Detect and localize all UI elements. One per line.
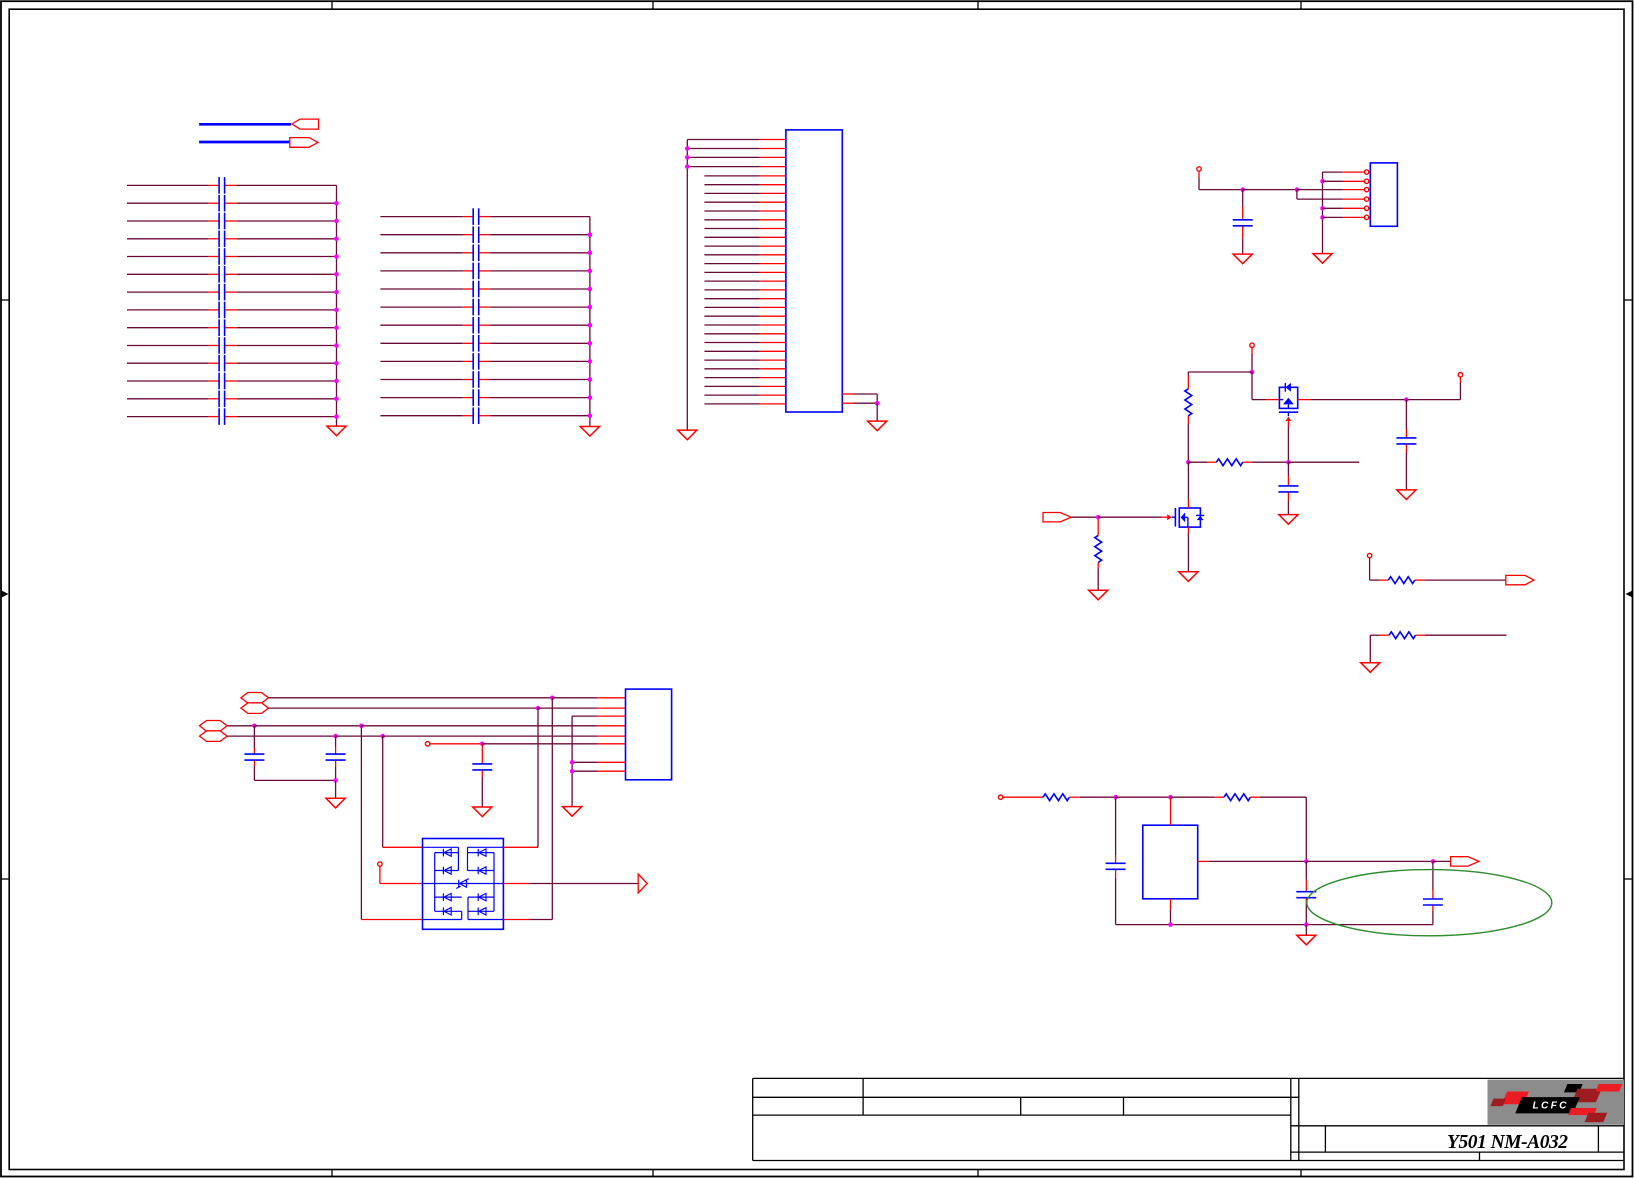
wire J1 pin 11 (704, 228, 786, 230)
ground (327, 426, 346, 436)
ground (326, 798, 345, 808)
wire J1 pin 19 (704, 298, 786, 300)
wire R5 right open end (1416, 634, 1507, 636)
ground (1233, 254, 1252, 264)
node open-circle terminal (1197, 167, 1201, 171)
wire D1 top-right to net B (503, 708, 538, 847)
ground (563, 807, 582, 817)
node open-circle input (998, 795, 1002, 799)
connector J1 (786, 130, 842, 412)
capacitor C26 with row wire (380, 407, 590, 424)
ground (1297, 935, 1316, 945)
diode D1.1 (443, 849, 451, 857)
highlight ellipse (1307, 870, 1552, 936)
capacitor C29 (1396, 400, 1416, 490)
wire J1 pin 21 (704, 315, 786, 317)
wire D1 bottom-right to net A (503, 698, 552, 920)
wire J1 pin 22 (704, 324, 786, 326)
ground (580, 427, 599, 437)
capacitor C27 (1233, 190, 1253, 254)
wire gate net horizontal (1188, 461, 1216, 463)
capacitor C13 with row wire (127, 391, 337, 408)
capacitor C14 with row wire (127, 408, 337, 425)
capacitor C20 with row wire (380, 299, 590, 316)
wire J1 pin 27 (704, 368, 786, 370)
wire R7 right and corner down (1250, 797, 1306, 861)
port tag P5 (bidirectional hexagon) (241, 693, 269, 704)
wire bus BUS1 (199, 123, 291, 126)
wire J1 pin 13 (704, 245, 786, 247)
svg-text:LCFC: LCFC (1533, 1101, 1568, 1112)
ground (1279, 515, 1298, 525)
resistor R2 (1216, 459, 1242, 466)
wire J1 pin 4 (687, 166, 786, 168)
capacitor C25 with row wire (380, 389, 590, 406)
wire J2 pin 8 (572, 770, 625, 772)
node J3 pin 3 circle (1364, 187, 1368, 191)
diode D1.7 (478, 893, 486, 901)
wire J1 pin 10 (704, 219, 786, 221)
wire J3 ground pin at y=181.3 (1323, 180, 1365, 182)
wire net C to D1 bottom-left (361, 726, 422, 920)
node J3 pin 4 circle (1364, 197, 1368, 201)
wire J1 pin 9 (704, 210, 786, 212)
capacitor C12 with row wire (127, 373, 337, 390)
port tag P7 (bidirectional hexagon) (200, 721, 228, 732)
wire Q2 source to ground (1187, 527, 1189, 571)
wire net C with junctions (227, 724, 625, 729)
diode D1.4 (478, 867, 486, 875)
wire gate drive to Q2 with junction (1071, 514, 1172, 520)
wire J1 pin 17 (704, 280, 786, 282)
node J3 pin 5 circle (1364, 206, 1368, 210)
diode D1.8 (478, 908, 486, 916)
connector J3 (1370, 163, 1397, 226)
capacitor C2 with row wire (127, 195, 337, 212)
node open-circle D1 mid input (378, 862, 382, 866)
connector J2 (626, 689, 672, 780)
wire U1 output net with junctions (1198, 859, 1451, 864)
wire J1 pin 5 (704, 175, 786, 177)
diode D1.5 (443, 893, 451, 901)
capacitor C33 (1106, 797, 1126, 924)
port tag P8 (bidirectional hexagon) (200, 731, 228, 742)
wire bus BUS2 (199, 141, 290, 144)
capacitor C10 with row wire (127, 337, 337, 354)
wire J1 pin 29 (704, 385, 786, 387)
wire Q1 gate pull-down with red arrow (1286, 417, 1292, 462)
node open-circle output (1458, 373, 1462, 377)
wire J1 pin 26 (704, 359, 786, 361)
wire J1 pin 20 (704, 306, 786, 308)
wire supply vertical (1250, 348, 1255, 375)
wire J2 ground rail with junctions (570, 716, 575, 806)
diode D1.2 (443, 867, 451, 875)
capacitor C23 with row wire (380, 353, 590, 370)
node open-circle E (425, 742, 429, 746)
wire to resistor R1 top (1188, 372, 1252, 389)
capacitor C9 with row wire (127, 319, 337, 336)
wire from terminal to net (1199, 171, 1299, 192)
port tag P9 (output, pointing right) (1451, 857, 1479, 866)
wire GND rail right with junctions (1320, 172, 1325, 253)
wire U1 input pin (1170, 797, 1172, 825)
wire J1 pin 2 (687, 148, 786, 150)
ground (1397, 490, 1416, 500)
ground (678, 430, 697, 440)
capacitor C18 with row wire (380, 263, 590, 280)
resistor R7 (1224, 794, 1250, 801)
port tag P1 (input, pointing left) (292, 119, 319, 129)
capacitor C3 with row wire (127, 213, 337, 230)
wire J1 pin 28 (704, 377, 786, 379)
capacitor C1 with row wire (127, 177, 337, 194)
node J3 pin 2 circle (1364, 179, 1368, 183)
capacitor C19 with row wire (380, 281, 590, 298)
diode D1.6 (443, 908, 451, 916)
wire R6 to node with junctions (1069, 795, 1224, 800)
capacitor C34 (1296, 861, 1316, 924)
resistor R5 (1389, 632, 1415, 639)
capacitor C32 (472, 744, 492, 807)
regulator U1 (1143, 825, 1198, 899)
capacitor C22 with row wire (380, 335, 590, 352)
wire net B with junction (269, 706, 626, 711)
wire J1 pin 18 (704, 289, 786, 291)
port tag P3 (output, pointing right) (1043, 513, 1071, 522)
wire J1 pin 24 (704, 342, 786, 344)
wire J2 pin 7 (572, 761, 625, 763)
capacitor C6 with row wire (127, 266, 337, 283)
port off-page arrow (638, 874, 647, 893)
capacitor C30 (244, 726, 335, 781)
port tag P4 (output, pointing right) (1506, 575, 1534, 584)
capacitor C24 with row wire (380, 371, 590, 388)
diode D1.3 (478, 849, 486, 857)
wire net E with junction (430, 742, 626, 747)
resistor R4 (1388, 577, 1414, 584)
wire J1 pin 8 (704, 201, 786, 203)
wire J3 ground pin at y=208.3 (1323, 207, 1365, 209)
wire J1 pin 1 (687, 139, 786, 141)
diode D1.9 center (456, 879, 469, 889)
wire J3 ground pin at y=217.4 (1323, 216, 1365, 218)
wire net D to D1 top-left (383, 736, 423, 847)
ground (1179, 572, 1198, 582)
capacitor C35 (1423, 861, 1443, 924)
wire R5 left to ground (1369, 635, 1371, 662)
resistor R3 pulldown (1095, 520, 1102, 590)
transistor Q1 (PMOS) (1279, 383, 1298, 416)
wire R4 to port (1415, 579, 1506, 581)
wire J1 pin 12 (704, 236, 786, 238)
wire jog to J3 pin 4 (1297, 190, 1365, 200)
capacitor C21 with row wire (380, 317, 590, 334)
diode array D1 (423, 839, 504, 930)
wire GND bus of bank 2 with junctions (588, 217, 593, 427)
wire R1 bottom to node (1186, 416, 1191, 465)
wire J1 pin 30 (704, 394, 786, 396)
wire J1 pin 15 (704, 263, 786, 265)
wire Q2 drain (1187, 462, 1189, 508)
ground (868, 421, 887, 431)
wire J1 pin 31 (704, 403, 786, 405)
wire D1 output to off-page arrow (503, 883, 638, 885)
wire resistor R5 net (1370, 634, 1389, 636)
wire J1 pin 3 (687, 156, 786, 158)
node J3 pin 1 circle (1364, 170, 1368, 174)
port tag P6 (bidirectional hexagon) (241, 703, 269, 714)
wire to resistor R4 (1370, 558, 1389, 580)
capacitor C28 (1278, 462, 1298, 514)
capacitor C16 with row wire (380, 226, 590, 243)
node J3 pin 6 circle (1364, 215, 1368, 219)
wire J3 ground pin at y=172.1 (1323, 171, 1365, 173)
node open-circle sense top (1367, 553, 1371, 557)
capacitor C31 (326, 736, 346, 798)
capacitor C4 with row wire (127, 231, 337, 248)
wire R2 right to node and open end (1243, 460, 1360, 465)
ground (1089, 590, 1108, 600)
resistor R6 (1043, 794, 1069, 801)
port tag P2 (output, pointing right) (290, 138, 318, 148)
svg-text:Y501 NM-A032: Y501 NM-A032 (1447, 1132, 1568, 1153)
ground (1361, 663, 1380, 673)
transistor Q2 (NMOS) (1172, 508, 1205, 527)
wire to J3 pin 3 (1297, 189, 1365, 191)
wire J1 pin 14 (704, 254, 786, 256)
node open-circle supply top (1250, 343, 1254, 347)
wire J1 right-side pins to ground (842, 394, 879, 421)
capacitor C15 with row wire (380, 208, 590, 225)
wire net D with junctions (227, 734, 625, 739)
wire input to R6 (1003, 796, 1043, 798)
wire GND stub left of J1 with junctions (685, 140, 690, 430)
ground (1313, 254, 1332, 264)
ground (473, 807, 492, 817)
wire net A with junction (269, 696, 626, 701)
wire J1 pin 23 (704, 333, 786, 335)
wire J1 pin 16 (704, 271, 786, 273)
capacitor C8 with row wire (127, 302, 337, 319)
wire J1 pin 25 (704, 350, 786, 352)
wire J2 pin 3 to ground rail (572, 715, 625, 717)
wire U1 bottom pin (1170, 899, 1172, 925)
capacitor C11 with row wire (127, 355, 337, 372)
wire J1 pin 7 (704, 192, 786, 194)
capacitor C7 with row wire (127, 284, 337, 301)
wire to Q1 source (1252, 372, 1279, 400)
capacitor C17 with row wire (380, 245, 590, 262)
wire ground bus bottom with junctions (1116, 922, 1433, 935)
resistor R1 (1185, 389, 1192, 416)
capacitor C5 with row wire (127, 248, 337, 265)
wire GND bus of bank 1 with junctions (334, 185, 339, 425)
wire J1 pin 6 (704, 184, 786, 186)
wire to D1 mid-left pin (380, 866, 423, 883)
wire Q1 drain to output circle (1298, 377, 1461, 402)
